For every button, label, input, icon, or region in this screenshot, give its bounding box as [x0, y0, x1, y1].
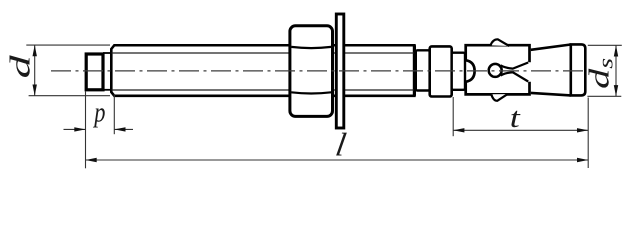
washer: [336, 14, 344, 128]
centerline (axis): [51, 70, 584, 72]
expansion clip body: [466, 45, 530, 94]
dimension ds top extension line: [588, 44, 622, 46]
dimension t left arrowhead: [453, 128, 464, 132]
tip connector top: [103, 52, 111, 54]
dimension d down arrowhead: [33, 85, 37, 96]
bolt tip (chamfered end): [86, 54, 103, 90]
neck section 2: [452, 53, 465, 90]
thread minor diameter line top: [111, 52, 414, 54]
dimension t dimension line: [453, 129, 588, 131]
dimension p left extension line: [85, 91, 87, 168]
dimension p right tail line: [114, 128, 133, 130]
threaded shaft body: [111, 45, 414, 96]
wedge cone bottom edge: [531, 93, 571, 96]
dimension t left extension line: [452, 97, 454, 136]
dimension d dimension line: [34, 45, 36, 96]
thread minor diameter line bottom: [111, 89, 414, 91]
dimension d up arrowhead: [33, 45, 37, 56]
svg-text:p: p: [92, 97, 105, 128]
clip top barb tab: [491, 39, 510, 46]
dimension p left tail line: [64, 128, 86, 130]
collar ring: [430, 46, 452, 96]
nut bottom chamfer arc: [291, 92, 331, 93]
dimension p right arrowhead: [114, 127, 125, 131]
dimension ds dimension line: [615, 45, 617, 96]
keyhole circle: [489, 64, 502, 77]
dimension t right arrowhead: [577, 128, 588, 132]
dimension d top extension line: [26, 44, 110, 46]
svg-text:t: t: [510, 103, 522, 134]
dimension d bottom extension line: [29, 95, 110, 97]
dimension p left arrowhead: [74, 127, 85, 131]
svg-text:d: d: [4, 55, 36, 79]
keyhole slot lower edge: [501, 72, 529, 81]
dimension l dimension line: [86, 159, 589, 161]
tip connector bottom: [103, 89, 111, 91]
hex nut body: [290, 26, 333, 117]
keyhole slot upper edge: [501, 63, 529, 69]
dimension ds up arrowhead: [614, 45, 618, 56]
dimension l right arrowhead: [577, 158, 588, 162]
clip bottom barb tab: [491, 94, 507, 101]
dimension ds bottom extension line: [587, 95, 621, 97]
dimension l left arrowhead: [86, 158, 97, 162]
dimension p right extension line: [113, 94, 115, 134]
wedge cone top edge: [531, 45, 571, 50]
nut top chamfer arc: [291, 47, 331, 48]
dimension t / l right extension line: [587, 98, 589, 169]
shaft right end face line: [413, 45, 416, 96]
dimension ds down arrowhead: [614, 85, 618, 96]
end cap: [571, 44, 586, 95]
neck section 1: [416, 50, 430, 90]
